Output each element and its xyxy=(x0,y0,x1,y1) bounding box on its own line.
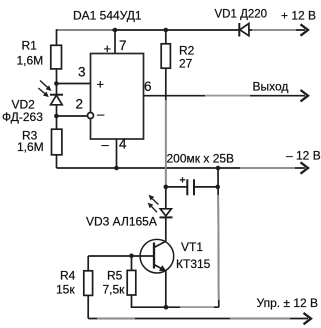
svg-text:6: 6 xyxy=(144,79,152,94)
wire −12V rail xyxy=(57,167,306,169)
svg-text:ФД-263: ФД-263 xyxy=(2,110,43,124)
wire pin 3 xyxy=(57,83,91,85)
svg-text:27: 27 xyxy=(179,57,193,71)
wire VD2 cathode stub xyxy=(56,84,58,95)
node A junction R1/VD2/pin3 xyxy=(54,81,59,86)
wire capacitor branch vertical xyxy=(217,168,220,307)
wire R4 to Упр rail xyxy=(87,295,89,318)
wire pin 7 xyxy=(114,30,116,54)
svg-text:7: 7 xyxy=(119,38,127,53)
svg-text:R1: R1 xyxy=(22,39,38,53)
junction pin 7 / top rail xyxy=(113,28,118,33)
svg-text:КТ315: КТ315 xyxy=(176,257,211,271)
junction −12V rail / capacitor branch xyxy=(216,166,221,171)
transistor VT1 xyxy=(140,239,174,273)
capacitor C1 200мк x 25В xyxy=(187,179,194,195)
arrow Упр terminal xyxy=(304,313,312,324)
wire +12V top rail xyxy=(57,30,239,45)
svg-text:1,6М: 1,6М xyxy=(17,54,44,68)
svg-text:R5: R5 xyxy=(107,269,123,283)
wire pin 6 output to Выход arrow xyxy=(144,95,306,97)
wire diode VD1 to +12V arrow xyxy=(249,29,305,31)
wire LED to collector xyxy=(165,217,167,241)
svg-text:R4: R4 xyxy=(60,269,76,283)
junction R2 / top rail xyxy=(164,28,169,33)
wire R3 to −12V rail xyxy=(56,155,58,168)
arrow +12 В terminal xyxy=(301,24,309,35)
svg-text:15к: 15к xyxy=(56,283,75,297)
wire pin 4 xyxy=(116,139,118,168)
svg-text:Упр. ± 12 В: Упр. ± 12 В xyxy=(257,296,319,310)
op-amp U1 DA1 body xyxy=(91,54,144,140)
diode VD1 xyxy=(239,23,249,37)
svg-text:R2: R2 xyxy=(179,44,195,58)
wire emitter vertical xyxy=(165,271,167,307)
resistor R5 xyxy=(127,270,136,295)
junction emitter / R5 line xyxy=(164,305,169,310)
wire base xyxy=(88,255,154,257)
resistor R3 xyxy=(52,129,62,155)
photodiode VD2 xyxy=(50,95,63,105)
wire R2 to LED VD3 chain xyxy=(165,68,167,209)
junction capacitor right xyxy=(215,185,220,190)
svg-text:VT1: VT1 xyxy=(181,240,203,254)
resistor R1 xyxy=(51,45,62,69)
svg-text:+ 12 В: + 12 В xyxy=(281,9,316,23)
capacitor C1 wires xyxy=(166,186,218,188)
wire R5 top xyxy=(131,256,133,271)
light arrows VD3 xyxy=(148,195,159,213)
wire R1 to node A xyxy=(56,69,58,84)
svg-text:– 12 В: – 12 В xyxy=(286,149,321,163)
LED VD3 xyxy=(160,209,173,218)
svg-text:VD3 АЛ165А: VD3 АЛ165А xyxy=(86,215,157,229)
wire Упр rail xyxy=(88,318,308,320)
svg-text:200мк x 25В: 200мк x 25В xyxy=(167,152,235,166)
wire R2 top xyxy=(165,30,167,44)
svg-text:+: + xyxy=(97,77,105,92)
inverting input bubble xyxy=(88,113,94,119)
svg-text:Выход: Выход xyxy=(253,80,289,94)
wire R5 to emitter line xyxy=(132,295,219,307)
svg-text:DA1 544УД1: DA1 544УД1 xyxy=(73,9,142,23)
label capacitor polarity + xyxy=(180,177,185,182)
junction capacitor left xyxy=(164,185,169,190)
junction pin 4 / −12V rail xyxy=(114,166,119,171)
svg-text:7,5к: 7,5к xyxy=(103,283,126,297)
light arrows VD2 xyxy=(38,81,51,98)
svg-text:–: – xyxy=(97,107,105,122)
wire R4 top xyxy=(87,256,89,271)
svg-text:3: 3 xyxy=(78,65,86,80)
svg-text:VD1 Д220: VD1 Д220 xyxy=(215,9,268,21)
resistor R4 xyxy=(84,271,93,296)
arrow −12 В terminal xyxy=(301,162,309,173)
wire pin 2 xyxy=(57,115,88,117)
svg-text:1,6М: 1,6М xyxy=(17,140,44,154)
wire VD2 anode stub xyxy=(56,105,58,116)
svg-text:–: – xyxy=(102,137,110,152)
svg-text:2: 2 xyxy=(76,97,84,112)
resistor R2 xyxy=(161,44,170,68)
node B junction VD2/R3/pin2 xyxy=(54,114,59,119)
junction base / R5 xyxy=(129,254,134,259)
svg-text:4: 4 xyxy=(119,136,127,151)
wire VD2 to R3 xyxy=(56,116,58,129)
arrow Выход terminal xyxy=(301,90,309,101)
